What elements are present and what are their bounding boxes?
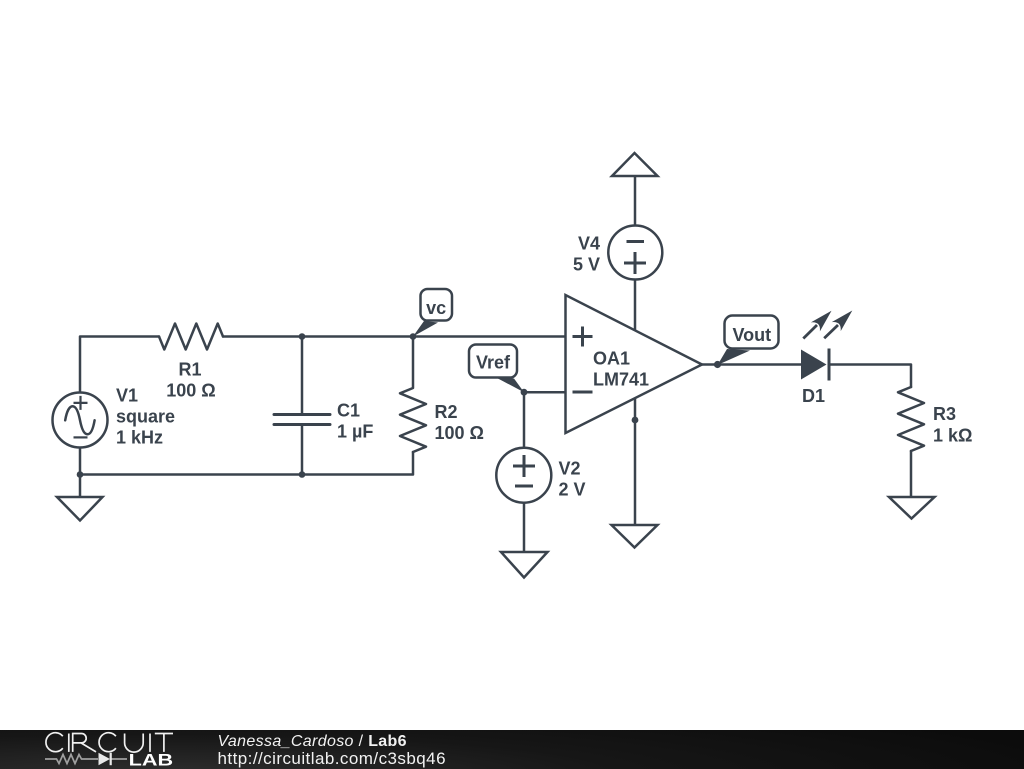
wire V1 top to R1 (80, 337, 159, 393)
logo word CIRCUIT (thin strokes), bar top=729.5 so local y = page y - 729.5 (46, 732, 173, 751)
logo diode (99, 752, 111, 764)
wire V4 to op-amp V+ pin (634, 280, 637, 332)
resistor R1 (159, 324, 223, 350)
svg-text:R3: R3 (933, 404, 956, 424)
junction node at output (714, 361, 721, 368)
wire bottom rail (80, 448, 413, 497)
U (125, 733, 144, 752)
LED D1 cathode bar (828, 349, 831, 381)
svg-text:100 Ω: 100 Ω (166, 381, 215, 401)
svg-text:5 V: 5 V (573, 255, 600, 275)
LED D1 light arrow 2 (824, 311, 852, 339)
V4 plus sign (624, 252, 646, 274)
footer url (218, 749, 447, 769)
wire Vref node down to V2 (523, 392, 526, 448)
V2 plus sign (513, 455, 535, 477)
ground under V2 (501, 552, 548, 578)
voltage source V2 circle (496, 448, 551, 503)
junction node at vc (410, 333, 417, 340)
resistor R3 (898, 387, 924, 451)
svg-text:Vref: Vref (476, 353, 511, 373)
capacitor C1 plates (274, 415, 330, 425)
op-amp + input symbol (573, 327, 593, 347)
power arrow above V4 (612, 153, 658, 176)
node label vc box (413, 289, 452, 337)
svg-text:Vout: Vout (732, 325, 771, 345)
V1 sine symbol (65, 406, 94, 434)
svg-text:1 µF: 1 µF (337, 422, 373, 442)
T (155, 733, 173, 751)
junction node at V1 bottom (77, 471, 84, 478)
wire R3 to ground (910, 451, 913, 497)
wire C1 vertical (301, 337, 304, 475)
ground under op-amp (612, 525, 658, 548)
junction node at op-amp V- pin (632, 417, 639, 424)
svg-text:2 V: 2 V (559, 480, 586, 500)
V1 minus sign (74, 436, 88, 438)
V1 plus sign (74, 396, 88, 410)
svg-text:OA1: OA1 (593, 349, 630, 369)
wire op-amp output (702, 363, 801, 366)
svg-text:1 kHz: 1 kHz (116, 428, 163, 448)
ground under R3 (889, 497, 935, 519)
svg-text:V4: V4 (578, 234, 600, 254)
I (149, 733, 151, 751)
logo resistor-diode symbol (45, 754, 127, 763)
svg-text:D1: D1 (802, 386, 825, 406)
resistor R2 (400, 337, 426, 453)
V2 minus sign (515, 485, 533, 488)
svg-text:V2: V2 (559, 459, 581, 479)
wire V2 to ground (523, 503, 526, 552)
LED D1 triangle (801, 350, 827, 380)
ground under V1 (57, 497, 103, 521)
CircuitLab logo (0, 730, 200, 769)
wire R1 to op-amp + input (223, 335, 566, 338)
LED D1 light arrow 1 (803, 311, 831, 339)
C (99, 732, 116, 751)
C (46, 732, 63, 751)
op-amp U1 triangle (566, 295, 703, 433)
wire LED to R3 (829, 365, 911, 388)
R (73, 733, 96, 751)
wire Vref node to op-amp - input (524, 391, 566, 394)
I (68, 733, 70, 751)
V4 minus sign (627, 240, 645, 243)
svg-text:LAB: LAB (129, 750, 174, 768)
svg-text:100 Ω: 100 Ω (435, 423, 484, 443)
svg-text:C1: C1 (337, 400, 360, 420)
junction node at C1 top (299, 333, 306, 340)
footer title (218, 732, 407, 750)
svg-text:vc: vc (426, 298, 446, 318)
svg-text:R2: R2 (435, 402, 458, 422)
wire V4 power arrow to circle (634, 176, 637, 226)
node label Vout box (718, 316, 779, 366)
junction node at C1 bottom (299, 471, 306, 478)
svg-text:1 kΩ: 1 kΩ (933, 426, 972, 446)
voltage source V1 circle (53, 393, 108, 448)
op-amp - input symbol (573, 391, 593, 394)
footer bar (0, 730, 1024, 769)
wire op-amp V- pin to ground (634, 398, 637, 526)
svg-text:LM741: LM741 (593, 370, 649, 390)
voltage source V4 circle (608, 226, 662, 280)
svg-text:R1: R1 (178, 360, 201, 380)
junction node at Vref (521, 389, 528, 396)
node label Vref box (469, 345, 524, 393)
svg-text:V1: V1 (116, 386, 138, 406)
svg-text:square: square (116, 407, 175, 427)
